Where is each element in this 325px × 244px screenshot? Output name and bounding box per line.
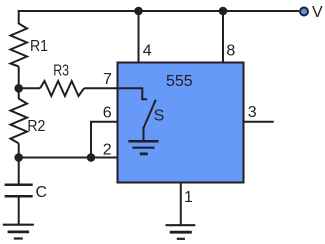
node C junction dot (pin2/pin6 tie) (87, 153, 96, 162)
svg-text:2: 2 (103, 141, 112, 158)
wire switch fixed contact (pin 7 internal) (117, 88, 147, 99)
switch S blade (144, 100, 156, 128)
wire capacitor to ground (18, 197, 20, 225)
svg-text:4: 4 (143, 43, 152, 60)
wire node A to R2 (18, 88, 20, 99)
resistor R1 (11, 24, 28, 67)
svg-text:S: S (154, 108, 165, 125)
svg-text:C: C (36, 184, 48, 201)
wire node B to pin 2 (19, 157, 117, 159)
svg-text:3: 3 (248, 104, 257, 121)
wire top supply rail (18, 10, 299, 12)
wire left drop to R1 (18, 10, 20, 24)
node A junction dot (14, 84, 23, 93)
resistor R3 (40, 81, 84, 96)
svg-text:R3: R3 (53, 63, 69, 80)
svg-text:8: 8 (226, 43, 235, 60)
svg-text:R1: R1 (30, 38, 48, 55)
wire node B to capacitor (18, 158, 20, 185)
capacitor C (5, 185, 33, 197)
IC 555 timer body (118, 63, 244, 183)
junction dot pin 8 rail (219, 7, 228, 16)
svg-text:V: V (312, 4, 323, 21)
svg-text:R2: R2 (27, 118, 45, 135)
wire R1 to node A (18, 67, 20, 89)
wire node A to R3 (19, 87, 40, 89)
junction dot pin 4 rail (134, 7, 143, 16)
terminal V (300, 8, 308, 16)
svg-text:1: 1 (184, 189, 193, 206)
ground (inside 555) (128, 141, 158, 154)
wire pin 8 (222, 11, 224, 62)
wire pin 4 (138, 11, 140, 62)
resistor R2 (11, 99, 28, 144)
ground (pin 1) (166, 225, 196, 239)
wire switch to internal ground (143, 127, 145, 141)
wire pin 6 jog (91, 122, 117, 158)
wire pin 3 output stub (244, 121, 274, 123)
wire R2 to node B (18, 143, 20, 157)
ground (below C) (3, 225, 34, 239)
node B junction dot (14, 153, 23, 162)
wire pin 1 (180, 184, 182, 225)
wire R3 to pin 7 (84, 87, 117, 89)
svg-text:7: 7 (103, 71, 112, 88)
svg-text:555: 555 (166, 73, 193, 90)
svg-text:6: 6 (103, 104, 112, 121)
